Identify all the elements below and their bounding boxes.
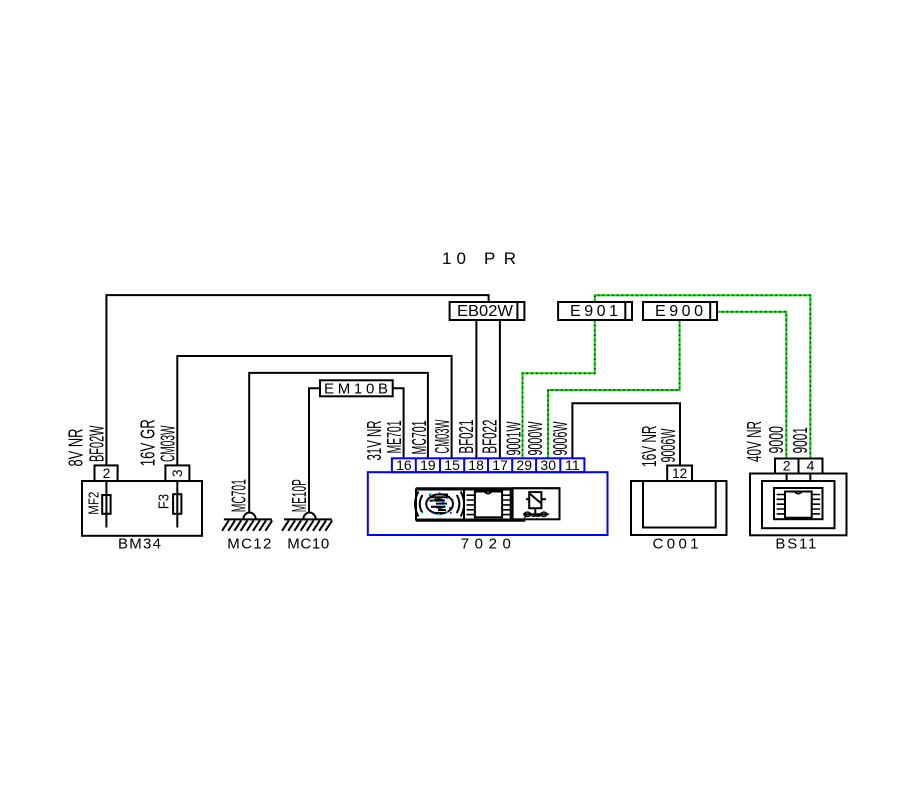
svg-text:9000W: 9000W <box>525 421 547 455</box>
wire 9000 green E900 right to BS11 pin 2 <box>717 312 786 459</box>
svg-text:9001: 9001 <box>790 427 812 454</box>
icon resistor actuator <box>523 492 549 518</box>
svg-text:11: 11 <box>565 457 580 473</box>
svg-text:16V GR: 16V GR <box>138 419 160 466</box>
splice EM10B <box>320 380 393 397</box>
svg-text:2: 2 <box>103 465 111 481</box>
svg-text:BM34: BM34 <box>118 536 161 553</box>
svg-text:19: 19 <box>420 457 436 473</box>
ground MC12 <box>222 512 272 552</box>
wire BF021 EB02W to 7020 pin 18 <box>475 320 477 458</box>
svg-text:BF022: BF022 <box>479 420 501 454</box>
pin 2 of BS11 <box>775 459 799 474</box>
wire ME701 from EM10B to 7020 pin 16 <box>393 388 404 458</box>
svg-text:18: 18 <box>468 457 484 473</box>
svg-text:CM03W: CM03W <box>432 420 454 454</box>
svg-text:MC12: MC12 <box>227 536 271 553</box>
wire 9006W from 7020 pin 11 to C001 pin 12 <box>572 403 680 465</box>
title 10 PR <box>442 249 516 268</box>
splice E900 <box>643 302 717 320</box>
svg-text:12: 12 <box>672 465 687 481</box>
svg-text:CM03W: CM03W <box>157 425 179 462</box>
component BM34 <box>82 465 202 553</box>
svg-text:BF02W: BF02W <box>86 425 108 462</box>
svg-text:BS11: BS11 <box>775 536 816 553</box>
svg-text:29: 29 <box>516 457 532 473</box>
svg-text:9006W: 9006W <box>658 428 680 462</box>
svg-text:MC10: MC10 <box>287 536 329 553</box>
pin 3 of BM34 <box>165 465 189 481</box>
pin 2 of BM34 <box>95 465 118 481</box>
splice E901 <box>558 302 632 320</box>
ECU 7020 <box>368 457 608 553</box>
fuse MF2 <box>105 481 107 528</box>
splice EB02W <box>450 302 525 320</box>
svg-text:8V NR: 8V NR <box>66 429 88 467</box>
wire BF022 EB02W to 7020 pin 17 <box>499 320 501 458</box>
svg-text:9000: 9000 <box>766 426 788 454</box>
svg-text:17: 17 <box>492 457 508 473</box>
wire 9001 green E901 top to BS11 pin 4 <box>595 295 811 458</box>
icon cells <box>416 487 560 489</box>
svg-text:ME10P: ME10P <box>289 479 311 512</box>
wire 9000W green E900 bottom to 7020 pin 30 <box>548 320 680 458</box>
svg-text:4: 4 <box>807 458 815 474</box>
icon IC <box>467 492 511 518</box>
module BS11 <box>750 458 847 553</box>
pin row 16 19 15 18 17 29 30 11 <box>392 458 585 472</box>
svg-text:16: 16 <box>396 457 412 473</box>
svg-text:15: 15 <box>444 457 460 473</box>
svg-text:F3: F3 <box>156 494 173 510</box>
svg-text:2: 2 <box>783 458 791 474</box>
svg-text:31V NR: 31V NR <box>364 421 386 461</box>
svg-text:EM10B: EM10B <box>324 381 388 398</box>
wire MC701 from ground MC12 to 7020 pin 19 <box>249 373 428 513</box>
pin 12 of C001 <box>667 466 692 482</box>
svg-text:ME701: ME701 <box>384 421 406 454</box>
fuse F3 <box>176 481 178 528</box>
svg-text:MC701: MC701 <box>409 421 431 455</box>
IC symbol in BS11 <box>777 492 821 518</box>
vertical wire labels <box>66 419 813 512</box>
svg-text:MF2: MF2 <box>85 492 102 515</box>
connector C001 <box>631 465 727 553</box>
svg-text:BF021: BF021 <box>456 420 478 454</box>
svg-text:MC701: MC701 <box>229 479 251 512</box>
wire ME10P from ground MC10 to EM10B <box>309 388 320 512</box>
wire 9001W green E901 bottom to 7020 pin 29 <box>523 320 595 458</box>
wire CM03W from BM34 pin 3 to 7020 pin 15 <box>177 356 451 465</box>
svg-text:3: 3 <box>169 469 185 477</box>
svg-text:EB02W: EB02W <box>457 303 514 320</box>
svg-text:9006W: 9006W <box>550 421 572 455</box>
svg-text:30: 30 <box>540 457 556 473</box>
ground MC10 <box>282 513 332 553</box>
svg-text:9001W: 9001W <box>503 421 525 455</box>
wire BF02W from BM34 pin 2 to EB02W <box>106 295 488 465</box>
svg-text:40V NR: 40V NR <box>744 421 766 462</box>
pin 4 of BS11 <box>799 459 823 474</box>
icon horn <box>415 492 464 517</box>
